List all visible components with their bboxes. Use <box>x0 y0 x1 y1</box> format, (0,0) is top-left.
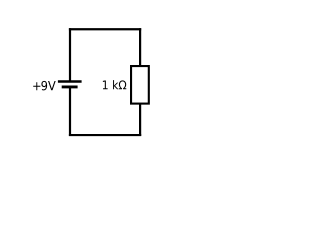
wire bottom <box>69 134 141 136</box>
battery B1 negative plate <box>62 85 78 88</box>
label 1 kOhm <box>103 80 126 89</box>
battery B1 positive plate <box>58 80 82 83</box>
wire top <box>69 28 141 30</box>
resistor R1 body <box>131 66 149 104</box>
wire right upper <box>139 28 141 67</box>
label +9V <box>33 81 55 91</box>
wire right lower <box>139 103 141 136</box>
wire left upper <box>69 28 71 82</box>
wire left lower <box>69 87 71 136</box>
